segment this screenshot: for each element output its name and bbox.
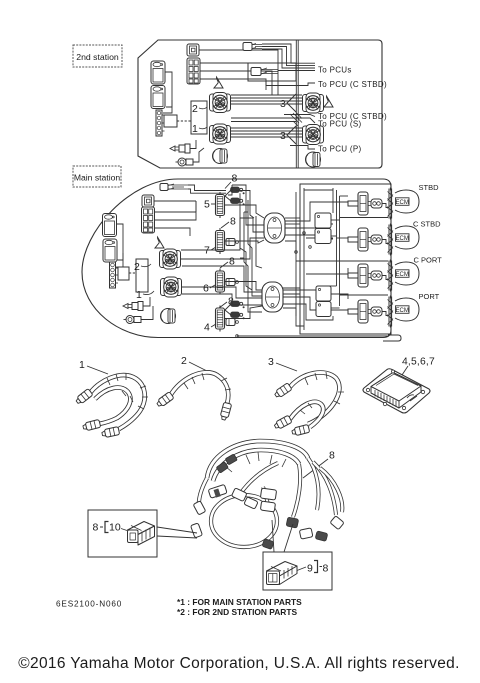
Main station label box xyxy=(73,166,121,187)
connector in box 9-8 xyxy=(267,562,298,585)
svg-text:1: 1 xyxy=(136,289,142,301)
main console bottom tab xyxy=(383,335,401,341)
round connector 2 (2nd station) xyxy=(210,93,231,113)
svg-text:*2 : FOR 2ND STATION PARTS: *2 : FOR 2ND STATION PARTS xyxy=(177,607,297,617)
connector in box 8-10 xyxy=(128,522,155,546)
part 1 label xyxy=(79,359,108,374)
svg-text:3: 3 xyxy=(280,130,286,142)
ECM row 2 (C STBD) xyxy=(348,224,393,256)
gauge 1 (2nd station) xyxy=(151,61,165,84)
ECM box PORT xyxy=(396,306,410,314)
oval junction connector lower (main) xyxy=(262,282,283,312)
part 3 connector a xyxy=(273,383,292,399)
svg-text:ECM: ECM xyxy=(396,308,409,314)
wires multipin to bus (main) xyxy=(155,201,197,236)
svg-text:6: 6 xyxy=(203,283,209,295)
pigtail connector in box (2nd station right) xyxy=(248,63,315,81)
small connector (hub 4) xyxy=(226,319,238,326)
svg-text:10: 10 xyxy=(109,522,121,534)
round connector 1 (2nd station) xyxy=(210,124,231,144)
svg-text:8: 8 xyxy=(93,522,99,534)
engine outline PORT xyxy=(395,298,419,321)
svg-text:©2016 Yamaha Motor Corporation: ©2016 Yamaha Motor Corporation, U.S.A. A… xyxy=(18,655,460,672)
svg-text:To PCUs: To PCUs xyxy=(318,66,352,75)
wire mesh extra (main console) xyxy=(240,200,300,316)
label 4 xyxy=(204,322,216,334)
dashed link to connector frame xyxy=(177,120,191,122)
wire button box to bus xyxy=(199,50,278,63)
ECM row 1 (STBD) xyxy=(348,188,393,220)
multipin connector (2nd station) xyxy=(187,58,200,84)
svg-text:PORT: PORT xyxy=(419,292,440,301)
part 1 connector a xyxy=(75,389,93,406)
gauge 1 (main) xyxy=(103,214,117,237)
connector frame 2/1 (main) xyxy=(134,259,154,301)
gauge wires xyxy=(163,72,172,113)
round switch (2nd station) xyxy=(176,158,194,166)
svg-text:8: 8 xyxy=(230,216,236,228)
switch wires (main) xyxy=(141,297,153,320)
label 7 xyxy=(204,245,216,257)
gauge wires (main) xyxy=(116,224,123,268)
svg-text:Main station: Main station xyxy=(74,173,121,183)
part 1 connector b xyxy=(82,419,100,431)
parts 4,5,6,7 label xyxy=(398,357,435,382)
svg-text:*1 : FOR MAIN STATION PARTS: *1 : FOR MAIN STATION PARTS xyxy=(177,597,302,607)
pigtail connector pair (main, top-left) xyxy=(160,184,188,191)
y-splitter (hub 4) xyxy=(225,301,245,319)
label 8 (hub 5) xyxy=(225,173,238,189)
gauge 2 (2nd station) xyxy=(151,86,165,109)
svg-text:5: 5 xyxy=(204,199,210,211)
label 8 (hub 6) xyxy=(220,256,235,269)
bay row separators xyxy=(296,218,388,296)
svg-text:C STBD: C STBD xyxy=(413,220,441,229)
hub 4 xyxy=(216,306,225,332)
gauge 2 (main) xyxy=(103,239,117,262)
svg-text:3: 3 xyxy=(268,356,274,368)
label 5 xyxy=(204,199,215,211)
wire trunk junctions to bay xyxy=(283,188,348,330)
terminal strip (2nd station) xyxy=(156,110,165,136)
svg-text:2nd station: 2nd station xyxy=(76,52,119,62)
svg-text:ECM: ECM xyxy=(396,200,409,206)
hub 7 xyxy=(216,228,225,254)
detail box 8-10 xyxy=(88,510,157,557)
dust cap right (2nd station) xyxy=(306,152,321,167)
svg-text:To PCU (P): To PCU (P) xyxy=(318,145,361,154)
engine outline STBD xyxy=(395,190,419,213)
svg-text:8: 8 xyxy=(323,563,329,575)
ECM box C STBD xyxy=(396,234,410,242)
label 3 lower with bracket xyxy=(280,126,296,144)
wires pigtail top to PCUs bend xyxy=(262,44,315,68)
ECM box STBD xyxy=(396,198,410,206)
relay box pair lower (bay) xyxy=(316,286,331,317)
2nd station label box xyxy=(73,45,122,67)
label 8 (hub 7) xyxy=(221,216,236,229)
svg-text:1: 1 xyxy=(79,359,85,371)
warning flag (main) xyxy=(155,237,164,248)
svg-text:4: 4 xyxy=(204,322,210,334)
part 1 connector c xyxy=(101,427,119,438)
relay box pair upper (bay) xyxy=(315,213,331,244)
svg-text:C PORT: C PORT xyxy=(414,256,443,265)
svg-text:8: 8 xyxy=(232,173,238,185)
hub 6 xyxy=(216,269,225,295)
y-splitter (hub 5) xyxy=(225,187,245,205)
wire bundle connector2 to connector3 xyxy=(231,95,302,104)
detail box 9-8 xyxy=(263,552,332,590)
multipin connector (main) xyxy=(142,207,155,233)
wire bundle lower labels xyxy=(231,113,315,127)
part 3 label xyxy=(268,356,297,371)
svg-text:ECM: ECM xyxy=(396,272,409,278)
svg-text:2: 2 xyxy=(181,355,187,367)
svg-text:1: 1 xyxy=(192,123,198,135)
label 3 upper with bracket xyxy=(280,94,296,112)
connector frame with 2/1 (2nd station) xyxy=(191,101,207,135)
svg-text:STBD: STBD xyxy=(419,183,440,192)
wire to PCU (C STBD) top xyxy=(266,81,315,86)
svg-text:2: 2 xyxy=(134,261,140,273)
part 2 connector b xyxy=(220,402,232,420)
part 8 harness bundle xyxy=(199,441,342,547)
part 8 branch connectors xyxy=(191,454,345,550)
part 3 connector b xyxy=(273,415,292,430)
main console outline xyxy=(82,179,391,338)
svg-text:6ES2100-N060: 6ES2100-N060 xyxy=(56,600,122,609)
pigtail connector top (2nd station right) xyxy=(243,43,262,51)
wire button to bus (main) xyxy=(154,200,196,202)
terminal strip (main) xyxy=(110,262,119,288)
switch wires xyxy=(190,140,204,162)
part 1 cable harness xyxy=(90,373,148,429)
ECM row 3 (C PORT) xyxy=(348,260,393,292)
svg-text:ECM: ECM xyxy=(396,236,409,242)
warning flag right (2nd station) xyxy=(324,96,333,107)
svg-text:8: 8 xyxy=(329,450,335,462)
wires multipin to bus xyxy=(200,63,278,95)
label 8 (hub 4) xyxy=(219,296,234,309)
ECM row 4 (PORT) xyxy=(348,296,393,328)
wire To PCU (P) xyxy=(290,146,315,150)
part 2 cable xyxy=(170,372,231,404)
dust cap (2nd station) xyxy=(213,149,228,164)
small connector (hub 7) xyxy=(226,239,238,246)
part 3 connector c xyxy=(291,424,309,436)
dust cap (main) xyxy=(161,309,176,324)
svg-text:9: 9 xyxy=(307,563,313,575)
2nd station console divider xyxy=(296,40,298,168)
junction box (main) xyxy=(118,267,129,280)
svg-text:2: 2 xyxy=(192,103,198,115)
wire bus vertical (main left) xyxy=(196,185,232,212)
wire network main station xyxy=(181,185,389,337)
svg-text:7: 7 xyxy=(204,245,210,257)
leader lines box 8-10 to harness xyxy=(157,527,197,538)
button connector (main) xyxy=(142,195,154,207)
key switch (main) xyxy=(123,302,143,311)
part 8 label xyxy=(303,450,335,479)
round connector 3 lower (2nd station) xyxy=(303,125,324,145)
junction box (2nd station) xyxy=(164,115,177,127)
leader lines harness to box 9-8 xyxy=(272,520,293,552)
svg-text:To PCU (S): To PCU (S) xyxy=(318,120,361,129)
label 6 xyxy=(203,283,215,295)
engine outline C PORT xyxy=(395,262,419,285)
round connector 1 (main) xyxy=(161,277,182,297)
wire bundle connector1 to connector3 lower xyxy=(231,128,302,137)
parts 4,5,6,7 bracket unit xyxy=(363,369,430,413)
hub 5 xyxy=(216,192,225,218)
svg-text:To PCU (C STBD): To PCU (C STBD) xyxy=(318,80,387,89)
button connector (2nd station) xyxy=(187,44,199,56)
part 3 cable harness xyxy=(290,372,344,427)
dashed link (main) xyxy=(129,272,136,274)
round connector 2 (main) xyxy=(160,249,181,269)
round connector 3 upper (2nd station) xyxy=(303,93,324,113)
oval junction connector upper (main) xyxy=(264,213,285,243)
ECM box C PORT xyxy=(396,270,410,278)
svg-text:4,5,6,7: 4,5,6,7 xyxy=(402,357,435,368)
key switch (2nd station) xyxy=(170,144,190,153)
inner tall rectangle (engine wiring bay) xyxy=(300,184,391,334)
wires pigtail to bus (main) xyxy=(188,185,226,193)
label 9-8 in box xyxy=(297,561,329,575)
small connector (hub 6) xyxy=(226,279,238,286)
warning flag (2nd station) xyxy=(214,77,223,88)
part 2 connector a xyxy=(156,392,174,408)
engine outline C STBD xyxy=(395,226,419,249)
round switch (main) xyxy=(124,316,142,324)
part 2 label xyxy=(181,355,207,371)
2nd station console outline xyxy=(138,40,382,168)
